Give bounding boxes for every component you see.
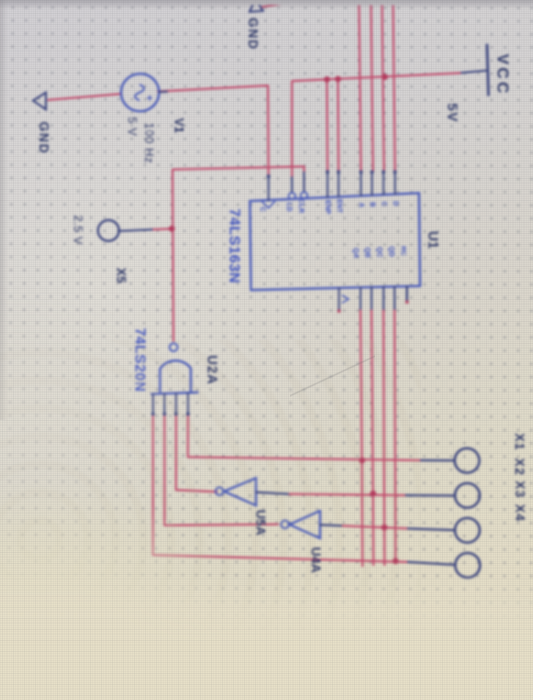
- wire GND1 stub: [261, 0, 305, 7]
- junction QA-X1: [359, 457, 365, 463]
- power VCC symbol: [487, 45, 489, 95]
- junction ENT-VCC: [335, 76, 341, 82]
- pin U2A input 2 stub: [163, 394, 165, 415]
- junction ENP-VCC: [324, 76, 330, 82]
- nand gate U2A body: [151, 392, 199, 394]
- wire QD output: [394, 309, 396, 561]
- pin ENT stub: [337, 171, 339, 197]
- pin C stub: [382, 171, 384, 195]
- wire QC output: [383, 309, 385, 565]
- chip U1 74LS163N body: [250, 193, 421, 291]
- junction QC-X3: [381, 524, 387, 530]
- wire X4 line to NAND input A: [152, 415, 408, 562]
- wire data input D (to top edge): [393, 0, 396, 171]
- inverter U5A body: [224, 478, 256, 506]
- probe X5: [98, 220, 119, 241]
- pin QC stub: [382, 287, 384, 309]
- wire U4A output to NAND input B: [164, 415, 279, 526]
- nand U2A output bubble: [170, 343, 178, 351]
- pin U2A input 4 stub: [187, 393, 189, 414]
- junction data C-VCC: [382, 74, 388, 80]
- pin U2A input 1 stub: [152, 394, 154, 414]
- wire X3 line to U4A input: [341, 526, 408, 529]
- probe X3: [455, 518, 480, 543]
- pin D stub: [394, 171, 396, 194]
- pin QA stub: [359, 287, 361, 309]
- wire QB output: [371, 309, 374, 565]
- pin U2A input 3 stub: [175, 393, 177, 414]
- probe X2: [455, 483, 480, 508]
- wire ENT to VCC rail: [338, 79, 339, 171]
- pin ENP stub: [326, 171, 328, 197]
- wire U5A output to NAND input C: [176, 415, 218, 492]
- wire X5 probe tap: [152, 228, 172, 231]
- pin QD stub: [393, 287, 395, 309]
- pin QB stub: [370, 287, 372, 309]
- pin U4A input stub: [320, 524, 341, 527]
- wire ENP to VCC rail: [327, 79, 328, 171]
- voltage source V1: [121, 74, 159, 112]
- wire data input B (to top edge): [370, 0, 373, 171]
- pin A stub: [360, 171, 362, 196]
- wire X1 line to NAND input D: [188, 415, 421, 460]
- junction QB-X2: [370, 490, 376, 496]
- probe X4: [455, 553, 480, 578]
- wire V1 output to CLK pin: [158, 85, 269, 175]
- junction X5 tap: [169, 226, 175, 232]
- wire NAND output to ~LOAD pin: [172, 166, 304, 341]
- inverter U5A bubble: [216, 487, 224, 495]
- wire data input A (to top edge): [359, 0, 362, 171]
- probe X1: [455, 448, 480, 473]
- wire V1 to GND2: [48, 94, 120, 100]
- pin U5A input stub: [256, 492, 288, 494]
- pin 15 stub: [406, 286, 408, 302]
- inverter U4A bubble: [281, 521, 289, 529]
- junction QD-X4: [392, 558, 398, 564]
- wire X2 line to U5A input: [288, 494, 406, 495]
- pin CLK stub: [267, 175, 269, 200]
- pin RCO stub: [338, 288, 340, 311]
- ground GND2: [33, 92, 46, 109]
- inverter U4A body: [289, 511, 320, 539]
- wire data input C (to top edge): [382, 0, 385, 171]
- ground GND1: [250, 0, 264, 12]
- pin B stub: [371, 171, 373, 195]
- wire QA output: [360, 309, 363, 566]
- wire VCC rail to ~CLR pin: [292, 73, 461, 178]
- pin ~LOAD stub: [291, 177, 293, 192]
- pin ~CLR stub: [303, 172, 305, 192]
